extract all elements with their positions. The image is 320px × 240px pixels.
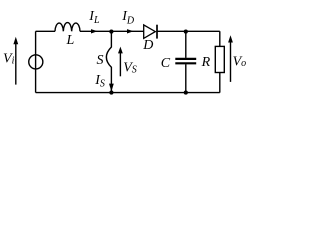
svg-text:R: R	[201, 55, 211, 70]
svg-text:L: L	[66, 33, 75, 48]
svg-text:S: S	[97, 53, 104, 68]
svg-text:C: C	[161, 56, 171, 71]
svg-text:D: D	[142, 38, 153, 53]
